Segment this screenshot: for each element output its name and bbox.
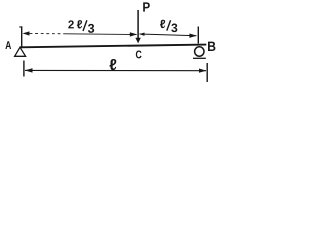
label P — [143, 2, 150, 11]
bottom arrow right — [199, 69, 206, 73]
load P arrowhead — [135, 38, 140, 44]
label 2l/3 digit 2 — [68, 20, 74, 28]
label l/3 digit 3 — [171, 23, 177, 32]
dimension line A to C dotted part — [24, 32, 66, 34]
label B — [208, 42, 215, 51]
beam AB — [20, 45, 206, 48]
small hook at top of left tick — [19, 26, 22, 28]
load P arrow shaft — [137, 10, 139, 40]
arrow right at B tick — [189, 34, 196, 38]
label l — [110, 59, 117, 70]
small arrow right of P shaft — [139, 33, 144, 36]
bottom arrow left — [25, 68, 33, 72]
bottom right tick — [206, 63, 208, 82]
label l/3 slash — [167, 20, 171, 30]
bottom dimension line — [25, 69, 206, 71]
label l/3 script l — [160, 20, 165, 28]
dimension line A to C solid part — [66, 33, 137, 36]
dimension line C to B — [140, 34, 197, 36]
pin support at A — [15, 47, 26, 56]
label C — [136, 51, 142, 59]
roller support at B — [195, 47, 204, 56]
right extension tick at B — [197, 27, 199, 44]
label 2l/3 slash — [83, 20, 87, 31]
arrow right at C — [130, 32, 137, 36]
label 2l/3 script l — [77, 20, 82, 28]
left extension tick at A — [21, 26, 23, 46]
arrow left at A tick — [23, 31, 30, 35]
bottom left tick — [23, 61, 25, 77]
label 2l/3 digit 3 — [88, 24, 94, 33]
roller ground line — [193, 57, 206, 59]
label A — [5, 41, 11, 49]
